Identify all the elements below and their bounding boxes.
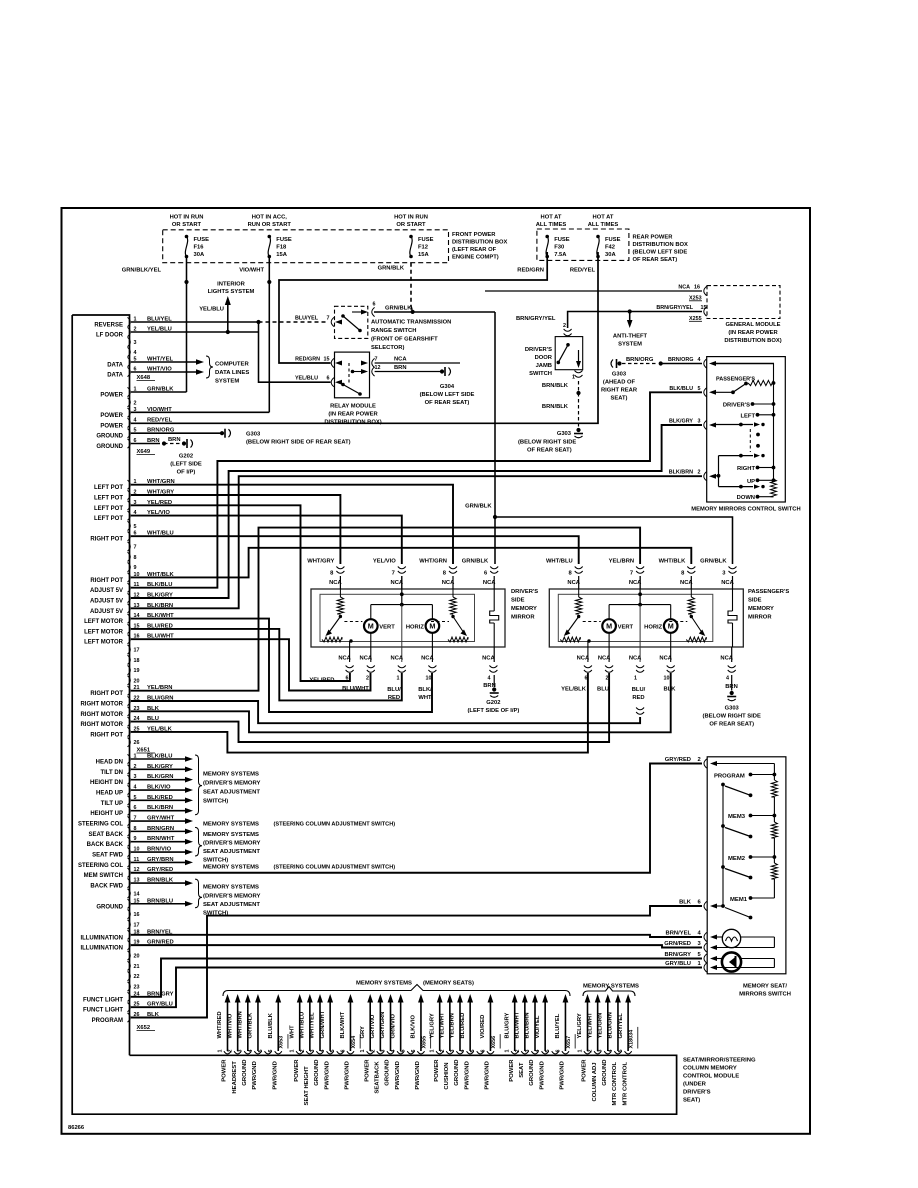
svg-text:MEM2: MEM2: [728, 856, 746, 862]
svg-text:AUTOMATIC TRANSMISSION: AUTOMATIC TRANSMISSION: [371, 320, 451, 326]
svg-text:16: 16: [134, 912, 140, 918]
svg-text:SEAT: SEAT: [519, 1062, 525, 1078]
svg-text:2: 2: [228, 1050, 234, 1053]
svg-text:18: 18: [134, 658, 140, 664]
passenger mirror left pot dashed wiper link: [583, 621, 601, 623]
border frame: [62, 208, 811, 1134]
wire BLK/GRY switch pin3 to X651 pin 12: [131, 425, 702, 598]
wire BLK X651 pin23 to passenger mirror pin10: [131, 673, 671, 732]
svg-text:BLU/BLK: BLU/BLK: [268, 1012, 274, 1038]
passenger mirror top pin 3 GRN/BLK: [729, 567, 737, 569]
svg-text:G304: G304: [440, 384, 455, 390]
wire BRN/YEL X652 pin18 to switch pin 4: [131, 935, 702, 937]
svg-text:GRY/YEL: GRY/YEL: [618, 1013, 624, 1039]
svg-text:PWR/GND: PWR/GND: [560, 1061, 566, 1089]
svg-text:5: 5: [698, 386, 701, 392]
connector X652 pin 21: [128, 961, 131, 970]
passenger mirror outer box: [549, 589, 743, 647]
svg-text:X655: X655: [421, 1036, 427, 1049]
svg-text:FUSE: FUSE: [418, 237, 434, 243]
svg-text:GROUND: GROUND: [314, 1060, 320, 1086]
module connector X653 pin 3 WHT/BRN: [244, 1051, 251, 1054]
svg-text:LEFT POT: LEFT POT: [94, 485, 123, 491]
svg-text:PROGRAM: PROGRAM: [92, 1018, 123, 1024]
wire YEL/BRN X651 pin21 to passenger mirror pin7: [131, 528, 640, 691]
relay pin 7 NCA: [361, 361, 368, 366]
general module pin 16 NCA wire: [485, 290, 702, 292]
svg-text:10: 10: [664, 676, 670, 682]
wire BRN/BLK dashed to ground G303: [578, 381, 580, 429]
module connector X653 pin 6 BLU/BLK: [275, 1051, 282, 1054]
relay pin 6 YEL/BLU: [331, 378, 334, 387]
switch pin 3 contact row: [715, 424, 753, 426]
svg-text:HORIZ: HORIZ: [644, 625, 662, 631]
wire WHT/YEL pin5 to computer data lines: [131, 361, 196, 363]
wire BLK/BLU switch pin5 to X651 pin 11: [131, 392, 702, 587]
module connector X18034 pin 5 GRY/YEL: [625, 1051, 632, 1054]
ATRS switch arm: [341, 314, 345, 318]
connector X651 pin 24 BLU: [128, 717, 131, 726]
wire BRN pin6 to ground G202: [131, 443, 160, 445]
svg-text:SWITCH): SWITCH): [203, 799, 228, 805]
ATRS pin 7 BLU/YEL: [331, 317, 334, 326]
wire BRN/GRY X652 pin24 to switch pin 5: [131, 959, 702, 997]
driver's door jamb switch box: [555, 337, 583, 370]
svg-text:ADJUST 5V: ADJUST 5V: [90, 588, 123, 594]
svg-text:HOT IN ACC,: HOT IN ACC,: [252, 215, 288, 221]
module connector X655 pin 6 BLK/VIO: [417, 1051, 424, 1054]
svg-text:2: 2: [698, 470, 701, 476]
connector X652 pin 5 BLK/RED: [128, 796, 131, 805]
connector X649 pin 6 BRN: [128, 439, 131, 448]
svg-text:GROUND: GROUND: [96, 904, 123, 910]
svg-text:WHT: WHT: [418, 695, 432, 701]
svg-text:3: 3: [698, 419, 701, 425]
svg-text:MEM SWITCH: MEM SWITCH: [84, 873, 123, 879]
ground G303 (below right side of rear seat) for jamb switch: [576, 428, 580, 432]
svg-text:WHT/GRN: WHT/GRN: [419, 559, 447, 565]
svg-text:(BELOW RIGHT SIDE: (BELOW RIGHT SIDE: [518, 440, 576, 446]
svg-text:MIRROR: MIRROR: [511, 615, 535, 621]
svg-text:6: 6: [373, 302, 376, 308]
module connector X654 pin 1 WHT: [296, 1051, 303, 1054]
svg-text:BLU: BLU: [597, 687, 609, 693]
svg-text:(MEMORY SEATS): (MEMORY SEATS): [423, 981, 474, 987]
passenger mirror motor bus: [609, 604, 671, 606]
svg-text:SWITCH: SWITCH: [529, 371, 552, 377]
svg-text:LIGHTS SYSTEM: LIGHTS SYSTEM: [208, 289, 255, 295]
svg-text:BRN/ORG: BRN/ORG: [668, 357, 693, 363]
svg-text:(BELOW RIGHT SIDE: (BELOW RIGHT SIDE: [703, 714, 761, 720]
connector X651 pin 26: [128, 738, 131, 747]
wire X652 pin 6 to memory systems: [131, 810, 185, 812]
svg-text:NCA: NCA: [421, 656, 434, 662]
svg-text:GROUND: GROUND: [385, 1060, 391, 1086]
svg-text:BRN: BRN: [394, 365, 407, 371]
svg-text:POWER: POWER: [294, 1059, 300, 1082]
svg-text:POWER: POWER: [222, 1059, 228, 1082]
svg-text:GRN/BLK: GRN/BLK: [385, 306, 412, 312]
svg-text:GROUND: GROUND: [242, 1060, 248, 1086]
svg-text:X654: X654: [351, 1036, 357, 1049]
svg-text:F42: F42: [605, 245, 615, 251]
svg-text:STEERING COL: STEERING COL: [78, 863, 123, 869]
wire X652 pin 11 to steering column switch: [131, 861, 185, 863]
svg-text:LEFT MOTOR: LEFT MOTOR: [84, 629, 124, 635]
svg-text:7: 7: [134, 545, 137, 551]
svg-text:BLU/WHT: BLU/WHT: [342, 686, 369, 692]
junction on VIO/WHT: [267, 280, 271, 284]
svg-text:SEAT BACK: SEAT BACK: [88, 832, 123, 838]
wire WHT/VIO pin6 to computer data lines: [131, 371, 196, 373]
svg-text:FUNCT LIGHT: FUNCT LIGHT: [83, 997, 123, 1003]
svg-text:FUNCT LIGHT: FUNCT LIGHT: [83, 1008, 123, 1014]
wire YEL/BLK X651 pin25 to passenger mirror pin6: [131, 673, 588, 753]
svg-text:GROUND: GROUND: [454, 1060, 460, 1086]
svg-text:RANGE SWITCH: RANGE SWITCH: [371, 328, 416, 334]
svg-text:BLU/GRN: BLU/GRN: [608, 1012, 614, 1038]
driver mirror right pot dashed wiper link: [431, 621, 449, 623]
svg-text:YEL/GRY: YEL/GRY: [577, 1013, 583, 1038]
module connector X18034 pin 1 YEL/GRY: [584, 1051, 591, 1054]
svg-text:3: 3: [310, 1050, 316, 1053]
svg-text:RED/GRN: RED/GRN: [517, 267, 544, 273]
svg-text:MTR CONTROL: MTR CONTROL: [612, 1062, 618, 1106]
module connector X18034 pin 2 YEL/WHT: [594, 1051, 601, 1054]
svg-text:17: 17: [134, 922, 140, 928]
svg-text:2: 2: [370, 1050, 376, 1053]
svg-text:5: 5: [618, 1050, 624, 1053]
relay module box: [335, 352, 370, 398]
svg-text:2: 2: [300, 1050, 306, 1053]
svg-text:4: 4: [391, 1050, 397, 1053]
svg-text:SYSTEM: SYSTEM: [215, 379, 239, 385]
svg-text:OF REAR SEAT): OF REAR SEAT): [709, 722, 754, 728]
wire GRN/BLK from fuse F12 (dashed): [410, 263, 412, 306]
svg-text:17: 17: [134, 648, 140, 654]
svg-text:POWER: POWER: [434, 1059, 440, 1082]
module connector X18034 pin 3 YEL/GRN: [604, 1051, 611, 1054]
driver mirror left potentiometer: [339, 589, 341, 597]
driver mirror pot bottom connection: [349, 639, 352, 642]
connector X651 pin 23 BLK: [128, 707, 131, 716]
svg-text:BLU/YEL: BLU/YEL: [295, 316, 319, 322]
svg-text:JAMB: JAMB: [536, 363, 552, 369]
ground G303 (ahead of right rear seat): [617, 361, 621, 365]
svg-text:DISTRIBUTION BOX: DISTRIBUTION BOX: [633, 242, 689, 248]
svg-text:1: 1: [572, 375, 575, 381]
svg-text:7: 7: [392, 571, 395, 577]
relay internal contact to pin 12: [351, 370, 355, 374]
svg-text:1: 1: [397, 676, 400, 682]
wire WHT/BLU X651 pin6 to passenger mirror: [131, 536, 579, 564]
svg-text:MEMORY SYSTEMS: MEMORY SYSTEMS: [356, 981, 412, 987]
inline connector on passenger BLU/RED wire: [636, 708, 644, 710]
selector dots: [756, 433, 760, 437]
wire X652 pin 15 to memory systems: [131, 903, 185, 905]
svg-text:15A: 15A: [418, 252, 429, 258]
svg-text:SWITCH): SWITCH): [203, 858, 228, 864]
svg-text:F16: F16: [194, 245, 205, 251]
module connector X654 pin 5: [337, 1051, 344, 1054]
automatic transmission range switch box (dashed): [335, 306, 368, 338]
connector X648 pin 6 WHT/VIO: [128, 367, 131, 376]
svg-text:OF I/P): OF I/P): [177, 470, 196, 476]
svg-text:POWER: POWER: [509, 1059, 515, 1082]
switch pin 2 GRY/RED: [704, 759, 707, 768]
memory mirrors control switch box: [707, 357, 786, 502]
svg-text:PWR/GND: PWR/GND: [324, 1061, 330, 1089]
driver mirror element: [493, 589, 495, 611]
general module pin 15 connector X255: [704, 307, 707, 316]
driver mirror motor leads down: [370, 633, 372, 662]
svg-text:2: 2: [440, 1050, 446, 1053]
driver mirror top pin 6 GRN/BLK: [490, 567, 498, 569]
brace memory systems group 3: [195, 879, 202, 908]
switch pin 5 BLK/BLU: [704, 388, 707, 397]
svg-text:NCA: NCA: [482, 656, 495, 662]
module connector X657 pin 3 BLU/BRN: [531, 1051, 538, 1054]
wire BLU/RED X651 pin15 to driver mirror pin1: [131, 629, 402, 701]
svg-text:YEL/VIO: YEL/VIO: [373, 559, 396, 565]
svg-text:(DRIVER'S MEMORY: (DRIVER'S MEMORY: [203, 894, 261, 900]
svg-text:12: 12: [375, 365, 381, 371]
general module pin 16 connector X253: [704, 286, 707, 295]
rear power distribution box (dashed): [537, 229, 629, 260]
svg-text:BACK BACK: BACK BACK: [87, 842, 124, 848]
driver mirror pot stub wires: [349, 641, 351, 662]
svg-text:GRN/WHT: GRN/WHT: [320, 1010, 326, 1038]
wire YEL/RED X651 pin3 to driver mirror pin6: [131, 505, 350, 681]
connector X652 pin 24 BRN/GRY: [128, 992, 131, 1001]
svg-text:TILT UP: TILT UP: [101, 801, 123, 807]
wire WHT/GRN X651 pin1 to driver mirror: [131, 485, 453, 564]
brace memory systems group 1: [195, 755, 202, 815]
svg-text:LEFT: LEFT: [741, 413, 756, 419]
svg-text:RIGHT POT: RIGHT POT: [90, 578, 123, 584]
svg-text:NCA: NCA: [394, 357, 407, 363]
svg-text:10: 10: [426, 676, 432, 682]
svg-text:LEFT POT: LEFT POT: [94, 516, 123, 522]
svg-text:RELAY MODULE: RELAY MODULE: [330, 404, 376, 410]
svg-text:BLK/GRY: BLK/GRY: [669, 419, 693, 425]
svg-text:GRN/BLK/YEL: GRN/BLK/YEL: [122, 267, 162, 273]
svg-text:G303: G303: [246, 432, 261, 438]
module connector X656 pin 2 YEL/WHT: [446, 1051, 453, 1054]
switch pin 1 GRY/BLU: [704, 963, 707, 972]
connector X651 pin 9: [128, 563, 131, 572]
wire YEL/BLU riser to relay module: [259, 322, 331, 382]
svg-text:LEFT MOTOR: LEFT MOTOR: [84, 619, 124, 625]
connector X652 pin 3 BLK/GRN: [128, 775, 131, 784]
wire GRN/BLK branch to passenger mirror pin 3: [495, 517, 733, 564]
module connector X653 pin 1 WHT/RED: [224, 1051, 231, 1054]
svg-text:6: 6: [346, 676, 349, 682]
svg-text:DOWN: DOWN: [737, 495, 755, 501]
svg-text:2: 2: [134, 400, 137, 406]
module connector X656 pin 3 YEL/BRN: [456, 1051, 463, 1054]
svg-text:GRN/VIO: GRN/VIO: [390, 1014, 396, 1039]
svg-text:BRN/ORG: BRN/ORG: [626, 357, 654, 363]
svg-text:5: 5: [258, 1050, 264, 1053]
wire GRN/RED X652 pin19 to switch pin 3: [131, 945, 702, 947]
fuse F16 30A: [185, 235, 189, 239]
junction GRN/BLK dashed drop: [411, 310, 415, 314]
anti-theft system arrow: [628, 309, 632, 313]
svg-text:7: 7: [630, 571, 633, 577]
ground G202 below driver mirror: [492, 687, 496, 691]
svg-text:FUSE: FUSE: [276, 237, 292, 243]
wire VIO/WHT pin3 to fuse F18 drop: [131, 411, 269, 413]
connector X652 pin 25 GRY/BLU: [128, 1003, 131, 1012]
svg-text:HEAD UP: HEAD UP: [96, 791, 123, 797]
svg-text:VERT: VERT: [379, 625, 395, 631]
svg-text:ILLUMINATION: ILLUMINATION: [80, 946, 123, 952]
connector X651 pin 16 BLU/WHT: [128, 635, 131, 644]
svg-text:RED/YEL: RED/YEL: [147, 417, 173, 423]
svg-text:VIO/RED: VIO/RED: [480, 1015, 486, 1039]
svg-text:3: 3: [134, 340, 137, 346]
wire BLK X652 pin26 to switch pin 6: [131, 906, 702, 1018]
svg-text:ENGINE COMPT): ENGINE COMPT): [452, 254, 499, 260]
svg-text:RIGHT MOTOR: RIGHT MOTOR: [80, 722, 123, 728]
svg-text:6: 6: [340, 1050, 346, 1053]
svg-text:DISTRIBUTION BOX): DISTRIBUTION BOX): [324, 420, 381, 426]
svg-text:(DRIVER'S MEMORY: (DRIVER'S MEMORY: [203, 841, 261, 847]
connector X651 pin 2 WHT/GRY: [128, 490, 131, 499]
connector X651 pin 20: [128, 676, 131, 685]
wire BRN/ORG pin5 to ground G303: [131, 432, 222, 434]
svg-text:PWR/GND: PWR/GND: [464, 1061, 470, 1089]
svg-text:LF DOOR: LF DOOR: [96, 333, 124, 339]
svg-text:GRY/BLK: GRY/BLK: [248, 1012, 254, 1039]
wire X652 pin 1 to memory systems: [131, 758, 185, 760]
svg-text:GRY: GRY: [360, 1026, 366, 1038]
illumination lamp symbol: [722, 929, 740, 947]
svg-text:GRN/BLK: GRN/BLK: [465, 504, 492, 510]
module connector X654 pin 4 GRN/WHT: [327, 1051, 334, 1054]
passenger mirror pot stub wires: [587, 641, 589, 662]
passenger mirror pot bottom connection: [587, 639, 590, 642]
fuse F18 15A: [268, 235, 272, 239]
svg-text:16: 16: [694, 285, 700, 291]
svg-text:4: 4: [248, 1050, 254, 1053]
switch pin 4 BRN/ORG: [704, 359, 707, 368]
svg-text:RED/YEL: RED/YEL: [570, 267, 596, 273]
wire X652 pin 8 to memory systems: [131, 830, 185, 832]
fuse F30 7.5A: [545, 235, 549, 239]
svg-text:NCA: NCA: [360, 656, 373, 662]
wire X652 pin 5 to memory systems: [131, 799, 185, 801]
svg-text:SEAT ADJUSTMENT: SEAT ADJUSTMENT: [203, 790, 260, 796]
driver mirror top pin 7 YEL/VIO: [398, 567, 406, 569]
svg-text:ILLUMINATION: ILLUMINATION: [80, 935, 123, 941]
svg-text:6: 6: [555, 1050, 561, 1053]
memory seat/mirrors switch box: [707, 757, 786, 974]
svg-text:REVERSE: REVERSE: [94, 323, 123, 329]
svg-text:BLK/: BLK/: [418, 687, 432, 693]
computer data lines system brace: [206, 356, 213, 378]
wire YEL/BLU arrow up to interior lights: [227, 303, 229, 332]
svg-text:DATA: DATA: [107, 373, 123, 379]
svg-text:4: 4: [134, 350, 137, 356]
passenger mirror center feed through: [639, 576, 641, 605]
svg-text:3: 3: [238, 1050, 244, 1053]
svg-text:WHT/GRY: WHT/GRY: [307, 559, 334, 565]
svg-text:NCA: NCA: [659, 656, 672, 662]
svg-text:4: 4: [488, 676, 491, 682]
svg-text:WHT/BLK: WHT/BLK: [659, 559, 687, 565]
svg-text:5: 5: [470, 1050, 476, 1053]
svg-text:SEAT/MIRROR/STEERING: SEAT/MIRROR/STEERING: [683, 1058, 756, 1064]
svg-text:(AHEAD OF: (AHEAD OF: [603, 380, 636, 386]
svg-text:G202: G202: [486, 700, 500, 706]
svg-text:BACK FWD: BACK FWD: [90, 884, 123, 890]
svg-text:3: 3: [380, 1050, 386, 1053]
svg-text:RIGHT POT: RIGHT POT: [90, 537, 123, 543]
svg-text:X653: X653: [279, 1036, 285, 1049]
svg-text:20: 20: [134, 678, 140, 684]
connector X651 pin 21 YEL/BRN: [128, 686, 131, 695]
passenger mirror element: [732, 589, 734, 611]
svg-text:FRONT POWER: FRONT POWER: [452, 232, 496, 238]
svg-text:MIRROR: MIRROR: [748, 615, 772, 621]
svg-text:WHT/RED: WHT/RED: [217, 1011, 223, 1038]
svg-text:7: 7: [327, 316, 330, 322]
switch pin 2 internal path: [715, 475, 719, 477]
svg-text:OF REAR SEAT): OF REAR SEAT): [633, 257, 678, 263]
driver mirror center feed through: [401, 576, 403, 605]
module connector X656 pin 4 BLU/RED: [467, 1051, 474, 1054]
wire BLK/BRN switch pin2 to X651 pin 13: [131, 476, 702, 608]
svg-text:2: 2: [366, 676, 369, 682]
jamb switch pin 1 BRN/BLK: [575, 371, 583, 373]
svg-text:MEMORY SYSTEMS: MEMORY SYSTEMS: [203, 832, 259, 838]
svg-text:YEL/BLU: YEL/BLU: [199, 307, 224, 313]
connector X652 pin 14: [128, 889, 131, 898]
connector X652 pin 8 BRN/GRN: [128, 827, 131, 836]
svg-text:4: 4: [535, 1050, 541, 1053]
fuse F12 15A: [409, 235, 413, 239]
wire RED/GRN from fuse F30: [279, 252, 547, 363]
connector X651 pin 11 BLK/BLU: [128, 583, 131, 592]
svg-text:GRN/RED: GRN/RED: [664, 941, 691, 947]
svg-text:7.5A: 7.5A: [554, 252, 567, 258]
driver mirror top pin 8 WHT/GRY: [336, 567, 344, 569]
svg-text:PWR/GND: PWR/GND: [539, 1061, 545, 1089]
svg-text:M: M: [429, 622, 435, 631]
svg-text:GRY/GRN: GRY/GRN: [380, 1012, 386, 1039]
svg-text:MEMORY: MEMORY: [748, 606, 774, 612]
svg-text:RIGHT POT: RIGHT POT: [90, 691, 123, 697]
svg-text:GROUND: GROUND: [602, 1060, 608, 1086]
svg-text:WHT/BLU: WHT/BLU: [546, 559, 573, 565]
svg-text:BLU/BRN: BLU/BRN: [525, 1012, 531, 1038]
svg-text:COLUMN ADJ: COLUMN ADJ: [592, 1062, 598, 1101]
svg-text:1: 1: [430, 1050, 436, 1053]
svg-text:MIRRORS SWITCH: MIRRORS SWITCH: [739, 992, 791, 998]
connector X648 pin 2 YEL/BLU: [128, 327, 131, 336]
selector arm row 2: [719, 486, 754, 488]
driver mirror vertical motor M: [364, 619, 378, 633]
svg-text:(IN REAR POWER: (IN REAR POWER: [328, 412, 378, 418]
wire X652 pin 10 to memory systems: [131, 851, 185, 853]
driver mirror inner box: [320, 594, 475, 641]
passenger BRN pin 4 to ground G303: [731, 647, 733, 662]
svg-text:YEL/WHT: YEL/WHT: [440, 1012, 446, 1039]
connector X651 pin 14 BLK/WHT: [128, 614, 131, 623]
svg-text:RIGHT POT: RIGHT POT: [90, 732, 123, 738]
